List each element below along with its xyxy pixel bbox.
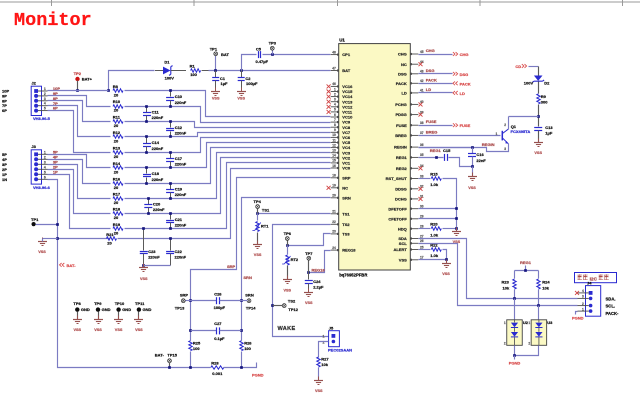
svg-text:220nF: 220nF	[152, 177, 164, 182]
U1 left pin 47 BAT	[331, 66, 351, 73]
svg-text:20: 20	[107, 241, 112, 246]
wire J5 pin2 to R27	[319, 342, 329, 358]
svg-text:PGND: PGND	[572, 316, 584, 321]
U1 left pin 1 VC15	[327, 87, 353, 94]
svg-text:25: 25	[420, 245, 424, 249]
svg-text:REG18: REG18	[312, 268, 326, 273]
svg-text:VSS: VSS	[305, 301, 313, 305]
node R25 bottom	[189, 366, 192, 369]
svg-text:1µF: 1µF	[545, 130, 553, 135]
label SCL right	[606, 304, 616, 309]
svg-text:37: 37	[420, 131, 424, 135]
svg-text:6P: 6P	[2, 108, 7, 113]
svg-text:VSS: VSS	[38, 250, 46, 254]
wire rail to Q1 collector	[509, 116, 539, 118]
svg-text:NC: NC	[342, 185, 348, 190]
U1 right pin 36 REGIN	[394, 143, 424, 150]
svg-text:10k: 10k	[542, 286, 549, 291]
wire REGIN row to C16	[419, 147, 473, 149]
resistor R23	[502, 271, 517, 299]
wire REG18 net	[309, 251, 331, 273]
svg-text:U1: U1	[339, 38, 345, 43]
capacitor C24	[305, 273, 324, 293]
capacitor C5	[256, 46, 269, 64]
capacitor C19	[166, 184, 187, 199]
U1 right pin 17 VSS	[399, 256, 424, 263]
svg-text:R18: R18	[113, 207, 121, 212]
wire J3 to R17	[48, 165, 111, 199]
ground VSS left of trunk	[38, 238, 47, 255]
node C21 bottom	[169, 227, 172, 230]
capacitor C16	[468, 148, 486, 167]
svg-text:1: 1	[504, 321, 506, 325]
node C16 bottom	[471, 165, 474, 168]
svg-text:R9: R9	[541, 94, 547, 99]
node TP7 junction	[307, 271, 310, 274]
svg-text:42: 42	[420, 79, 424, 83]
node C12 top	[169, 120, 172, 123]
U1 left pin 21 TS1	[331, 210, 351, 217]
svg-text:26: 26	[420, 239, 424, 243]
svg-text:8: 8	[334, 123, 336, 127]
svg-text:TP6: TP6	[284, 231, 292, 236]
svg-text:SCL: SCL	[399, 241, 408, 246]
svg-text:REGIN: REGIN	[482, 142, 495, 147]
U1 left pin 48 CP1	[331, 50, 351, 57]
wire TS3 net	[288, 234, 331, 246]
svg-text:VSS: VSS	[534, 151, 542, 155]
U1 left pin 7 VC9	[331, 118, 351, 125]
U1 right pin 35 REG1	[396, 153, 424, 160]
svg-text:R13: R13	[113, 146, 121, 151]
U1 left pin 14 VC2	[331, 154, 351, 161]
capacitor C23	[140, 227, 161, 267]
resistor R10	[113, 99, 123, 113]
ground VSS rail	[452, 228, 461, 244]
ESD diode U2	[504, 320, 529, 346]
U1 right pin 29 CFETOFF	[388, 215, 423, 222]
svg-text:FUSE: FUSE	[460, 123, 471, 128]
svg-text:VSS: VSS	[115, 328, 123, 332]
svg-text:20: 20	[114, 154, 119, 159]
net label 1P	[53, 169, 58, 174]
net label REGIN	[482, 142, 495, 147]
net label SRN	[243, 275, 252, 280]
svg-text:BAT-: BAT-	[155, 352, 165, 357]
svg-text:VSS: VSS	[468, 186, 476, 190]
svg-text:10k: 10k	[503, 286, 510, 291]
svg-text:C11: C11	[152, 110, 160, 115]
diode D2	[524, 67, 550, 94]
wire DFETOFF to rail	[419, 207, 458, 210]
svg-text:VSS: VSS	[140, 277, 148, 281]
svg-text:SRP: SRP	[227, 264, 236, 269]
svg-text:TP1: TP1	[31, 217, 39, 222]
ground VSS under C24	[304, 289, 313, 305]
resistor R14	[113, 161, 123, 175]
svg-text:D1: D1	[164, 60, 170, 65]
svg-text:SDA.: SDA.	[606, 296, 616, 301]
svg-text:CFETOFF: CFETOFF	[388, 216, 407, 221]
capacitor C2	[238, 71, 258, 88]
svg-text:20: 20	[114, 215, 119, 220]
svg-text:GND: GND	[81, 307, 90, 312]
svg-text:220nF: 220nF	[152, 146, 164, 151]
svg-text:36: 36	[420, 143, 424, 147]
connector J2 value VH3.96-5	[33, 116, 51, 121]
svg-text:20: 20	[114, 169, 119, 174]
test point TP15	[155, 352, 178, 368]
wire SRN from pin20	[242, 198, 331, 341]
svg-text:VSS: VSS	[442, 272, 450, 276]
net label 3P	[53, 159, 58, 164]
svg-text:VSS: VSS	[283, 288, 291, 292]
svg-text:220nF: 220nF	[175, 161, 187, 166]
wire R22 to VSS pin node	[443, 250, 447, 260]
wire J2 to R13	[48, 111, 111, 153]
node SRN TP14 row	[240, 299, 243, 302]
net label SRP	[227, 264, 236, 269]
test point TP1 bottom	[31, 217, 59, 226]
capacitor C14	[143, 137, 164, 153]
svg-text:4: 4	[44, 165, 46, 169]
svg-text:BAT+: BAT+	[82, 76, 93, 81]
svg-text:D2: D2	[544, 80, 550, 85]
svg-text:4: 4	[582, 289, 584, 293]
svg-text:C22: C22	[175, 249, 183, 254]
svg-text:6: 6	[44, 175, 46, 179]
capacitor C20	[144, 199, 165, 214]
svg-text:TS2: TS2	[342, 222, 350, 227]
svg-text:R24: R24	[542, 279, 550, 284]
ground VSS under C2	[237, 88, 246, 101]
node C20 top	[147, 197, 150, 200]
svg-text:C26: C26	[214, 292, 222, 297]
capacitor C26	[191, 292, 242, 310]
resistor R26	[240, 340, 253, 367]
ground VSS pin17	[442, 260, 451, 276]
svg-text:NC: NC	[401, 62, 407, 67]
node Q1 collector rail	[537, 115, 540, 118]
svg-text:VC0: VC0	[342, 166, 351, 171]
svg-text:SRN: SRN	[245, 293, 254, 298]
svg-text:GND: GND	[102, 307, 111, 312]
wire R8 to VC pin	[125, 91, 331, 117]
U1 right pin 30 DFETOFF	[388, 205, 423, 212]
net label 7P	[53, 101, 58, 106]
svg-text:1: 1	[334, 87, 336, 91]
U1 left pin 2 VC14	[327, 92, 353, 99]
svg-text:0.001: 0.001	[212, 371, 223, 376]
svg-text:6: 6	[334, 113, 336, 117]
svg-text:CD: CD	[515, 64, 521, 69]
svg-text:2: 2	[323, 340, 325, 344]
svg-text:FUSE: FUSE	[396, 123, 407, 128]
svg-text:12: 12	[332, 143, 336, 147]
net label PGND at J4	[572, 316, 584, 321]
svg-text:48: 48	[332, 50, 336, 54]
svg-text:5: 5	[44, 170, 46, 174]
connector J4	[578, 280, 601, 316]
node SDA R23	[513, 297, 516, 300]
node C12 bottom	[169, 135, 172, 138]
svg-text:220nF: 220nF	[152, 115, 164, 120]
svg-text:BAT: BAT	[342, 68, 350, 73]
net label REG1 top	[520, 260, 532, 265]
svg-text:2: 2	[528, 342, 530, 346]
U1 right pin 42 PACK	[396, 79, 424, 86]
svg-text:R27: R27	[321, 357, 329, 362]
svg-text:REG2: REG2	[396, 166, 408, 171]
svg-text:2.2µF: 2.2µF	[313, 285, 324, 290]
svg-text:TP15: TP15	[167, 352, 177, 357]
test point TP13	[175, 293, 191, 311]
wire ALERT to R22	[419, 249, 431, 251]
resistor R27	[317, 357, 330, 381]
U1 left pin 23 TS3	[331, 230, 351, 237]
svg-text:1: 1	[582, 307, 584, 311]
svg-text:100µF: 100µF	[214, 305, 226, 310]
wire R12 to VC pin	[125, 133, 331, 137]
node C14 bottom	[145, 151, 148, 154]
svg-text:C18: C18	[152, 171, 160, 176]
svg-text:CHG: CHG	[426, 48, 435, 53]
svg-text:3: 3	[582, 295, 584, 299]
svg-text:BAT-: BAT-	[67, 263, 77, 268]
node C21 top	[169, 212, 172, 215]
ground VSS under R27	[314, 377, 323, 393]
svg-text:18: 18	[332, 174, 336, 178]
svg-text:U3: U3	[547, 320, 553, 325]
test point TP4	[254, 199, 270, 214]
svg-text:R19: R19	[113, 222, 121, 227]
svg-text:3: 3	[44, 160, 46, 164]
svg-text:1N: 1N	[2, 177, 7, 182]
U1 left pin 8 VC8	[331, 123, 351, 130]
capacitor C12	[166, 122, 187, 137]
net CHG	[419, 48, 469, 57]
svg-text:2: 2	[334, 92, 336, 96]
U1 left pin 6 VC10	[331, 113, 353, 120]
U1 right pin 27 SDA	[398, 234, 423, 241]
svg-text:220nF: 220nF	[175, 130, 187, 135]
svg-text:R1: R1	[190, 64, 196, 69]
wire 10P J2.1 to R8	[48, 90, 109, 92]
svg-text:1: 1	[44, 150, 46, 154]
node C14 top	[145, 135, 148, 138]
svg-text:20: 20	[114, 108, 119, 113]
resistor R16	[113, 176, 123, 190]
svg-text:VSS: VSS	[237, 96, 245, 100]
svg-text:100µF: 100µF	[246, 81, 258, 86]
U1 right pin 33 RST_SHUT	[386, 174, 424, 181]
net label 5P	[53, 149, 58, 154]
svg-text:REG1: REG1	[520, 260, 532, 265]
svg-text:R26: R26	[244, 340, 252, 345]
capacitor C10	[166, 91, 187, 107]
U1 left pin 9 VC7	[331, 128, 351, 135]
svg-text:100: 100	[190, 72, 197, 77]
U1 right pin 44 NC	[401, 60, 424, 67]
IC U1 value bq76952PFBR	[339, 273, 367, 278]
svg-text:LD: LD	[401, 91, 406, 96]
diode D1	[155, 60, 186, 81]
svg-text:1.0k: 1.0k	[430, 253, 439, 258]
test point TP12	[273, 299, 299, 312]
node TP6 junction	[286, 244, 289, 247]
resistor R20	[430, 222, 441, 238]
test point TP14	[242, 293, 257, 311]
thermistor RT1	[252, 214, 269, 245]
connector J3	[31, 144, 47, 184]
wire J3 to R19	[48, 175, 111, 229]
test point TP6	[284, 231, 292, 246]
svg-text:C14: C14	[152, 140, 160, 145]
svg-text:TP1: TP1	[210, 46, 218, 51]
svg-text:PCHG: PCHG	[395, 102, 407, 107]
svg-text:220nF: 220nF	[148, 255, 160, 260]
test point TP9	[94, 301, 111, 320]
svg-text:R8: R8	[113, 84, 119, 89]
svg-text:30: 30	[420, 205, 424, 209]
U1 right pin 28 HDQ	[398, 225, 424, 232]
svg-text:VSS: VSS	[399, 257, 407, 262]
node C17 top	[169, 151, 172, 154]
J3 external pin names	[2, 152, 7, 182]
wire R17 to VC pin	[125, 153, 331, 199]
svg-text:1: 1	[323, 334, 325, 338]
U1 left pin 12 VC4	[331, 143, 351, 150]
U1 right pin 37 BREG	[395, 131, 424, 138]
svg-text:1µF: 1µF	[221, 81, 229, 86]
svg-text:C24: C24	[313, 279, 321, 284]
svg-text:LD: LD	[426, 87, 431, 92]
svg-text:SRP: SRP	[180, 293, 189, 298]
svg-text:TP7: TP7	[305, 251, 313, 256]
svg-text:14: 14	[332, 154, 336, 158]
svg-text:VH3.96-6: VH3.96-6	[33, 185, 51, 190]
wire VSS pin17	[419, 258, 448, 261]
U1 left pin 20 SRN	[331, 194, 351, 201]
ground VSS under TP8	[73, 316, 82, 332]
svg-text:SRN: SRN	[243, 275, 252, 280]
ground VSS under TP10	[114, 316, 123, 332]
capacitor C1	[212, 71, 228, 88]
capacitor C15	[443, 148, 451, 161]
test point TP2 BAT+	[74, 71, 93, 92]
svg-text:C16: C16	[476, 152, 484, 157]
node C10 bottom	[169, 105, 172, 108]
svg-text:R23: R23	[502, 279, 510, 284]
svg-text:C12: C12	[175, 125, 183, 130]
wire R21 row left ground spur	[43, 238, 58, 240]
svg-text:SRN: SRN	[342, 195, 351, 200]
node C19 bottom	[169, 197, 172, 200]
ground VSS under C16	[468, 167, 477, 190]
resistor R18	[113, 207, 123, 221]
svg-text:DFETOFF: DFETOFF	[388, 206, 407, 211]
U1 left pin 46 VC16	[327, 82, 353, 89]
svg-text:220nF: 220nF	[175, 100, 187, 105]
ground VSS under C13	[534, 139, 543, 155]
svg-text:C15: C15	[443, 148, 451, 153]
node REGIN C16	[471, 146, 474, 149]
svg-text:PDSG: PDSG	[395, 112, 406, 117]
svg-text:1: 1	[528, 321, 530, 325]
U1 left pin 10 VC6	[331, 133, 351, 140]
resistor R13	[113, 146, 123, 160]
net label 2P	[53, 164, 58, 169]
resistor R15	[430, 172, 441, 188]
svg-text:DCHG: DCHG	[395, 197, 407, 202]
node C27 left	[189, 329, 192, 332]
svg-text:2: 2	[44, 92, 46, 96]
node C18 top	[145, 166, 148, 169]
svg-text:35: 35	[420, 153, 424, 157]
label box external I2C	[575, 273, 617, 283]
svg-text:R21: R21	[106, 232, 114, 237]
U1 right pin 34 REG2	[396, 164, 424, 171]
node TS1 junction	[256, 212, 259, 215]
svg-text:11: 11	[332, 138, 336, 142]
resistor R1	[190, 64, 209, 78]
wire BAT row to IC pin47	[209, 70, 331, 72]
wire HDQ to R20	[419, 228, 431, 230]
capacitor C27	[191, 321, 242, 341]
node C11 bottom	[145, 120, 148, 123]
svg-text:R16: R16	[113, 176, 121, 181]
net PACK	[419, 77, 471, 86]
net label PGND under U2	[509, 361, 521, 366]
svg-text:TP8: TP8	[73, 301, 81, 306]
svg-text:1P: 1P	[53, 169, 58, 174]
svg-text:47: 47	[332, 66, 336, 70]
svg-text:220nF: 220nF	[175, 192, 187, 197]
wire BAT- trunk	[58, 239, 211, 368]
svg-text:TP10: TP10	[115, 301, 125, 306]
svg-text:GND: GND	[143, 307, 152, 312]
svg-text:C5: C5	[256, 46, 262, 51]
svg-text:TS1: TS1	[342, 211, 350, 216]
J2 external pin names	[2, 89, 9, 114]
resistor R24	[537, 271, 551, 306]
U1 right pin 38 FUSE	[396, 121, 424, 128]
U1 left pin 18 SRP	[331, 174, 351, 181]
svg-text:CHG: CHG	[460, 52, 469, 57]
node trunk R21	[56, 237, 59, 240]
svg-text:RST_SHUT: RST_SHUT	[386, 176, 408, 181]
svg-text:TP9: TP9	[94, 301, 102, 306]
net label 9P	[53, 91, 58, 96]
U1 left pin 19 NC	[327, 184, 349, 191]
U1 right pin 40 PCHG	[395, 100, 424, 107]
resistor R21	[106, 232, 116, 246]
svg-text:J2: J2	[31, 80, 36, 85]
svg-text:REGIN: REGIN	[394, 145, 407, 150]
svg-text:100V: 100V	[524, 80, 534, 85]
U1 left pin 4 VC12	[327, 103, 353, 110]
capacitor C22	[144, 237, 187, 265]
svg-text:WAKE: WAKE	[278, 326, 296, 332]
svg-text:1.0k: 1.0k	[430, 182, 439, 187]
svg-text:20: 20	[114, 185, 119, 190]
wire R10 to VC pin	[125, 107, 331, 123]
wire CP1 riser	[242, 55, 257, 71]
net label 4P	[53, 154, 58, 159]
svg-text:BREG: BREG	[426, 129, 438, 134]
resistor R28 shunt	[211, 360, 224, 376]
svg-text:BREG: BREG	[395, 133, 407, 138]
